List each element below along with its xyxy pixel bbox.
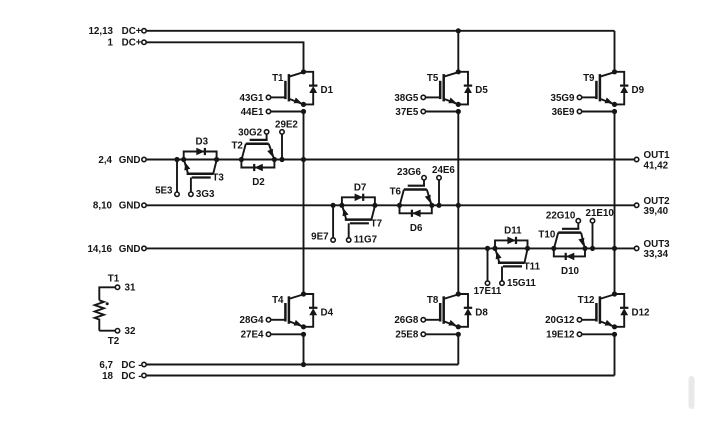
node T1 collector bbox=[301, 69, 306, 74]
junction T3 collector node bbox=[214, 157, 219, 162]
terminal 38G5 bbox=[421, 95, 440, 99]
svg-text:T2: T2 bbox=[231, 141, 243, 152]
node T12 collector bbox=[612, 291, 617, 296]
terminal 31 (thermistor T1) bbox=[108, 274, 136, 294]
svg-text:23G6: 23G6 bbox=[397, 167, 422, 178]
terminal 30G2 bbox=[264, 130, 268, 134]
terminal 37E5 bbox=[421, 109, 458, 113]
svg-text:26G8: 26G8 bbox=[394, 315, 419, 326]
svg-text:25E8: 25E8 bbox=[395, 330, 418, 341]
node T5 aux emitter tap bbox=[456, 109, 461, 114]
wire T5 emitter to T8 collector bbox=[457, 112, 459, 295]
node T1 emitter bbox=[301, 102, 306, 107]
svg-text:43G1: 43G1 bbox=[240, 93, 265, 104]
terminal 43G1 bbox=[266, 95, 285, 99]
wire DC- bus 6,7 bbox=[146, 364, 458, 366]
terminal OUT3 bbox=[634, 239, 670, 260]
node T8 collector bbox=[456, 291, 461, 296]
node T9 aux emitter tap bbox=[612, 109, 617, 114]
terminal DC+ pin 1 bbox=[108, 38, 147, 49]
wire DC+ bus 12,13 bbox=[146, 30, 614, 32]
junction T2 emitter node bbox=[272, 157, 277, 162]
terminal 21E10 bbox=[590, 219, 594, 249]
svg-text:17E11: 17E11 bbox=[474, 286, 502, 297]
svg-text:T4: T4 bbox=[272, 295, 284, 306]
terminal 27E4 bbox=[266, 332, 303, 336]
transistor T6 bbox=[400, 180, 432, 205]
svg-text:D2: D2 bbox=[252, 177, 265, 188]
svg-text:GND: GND bbox=[119, 244, 141, 255]
node T9 emitter bbox=[612, 102, 617, 107]
svg-text:D6: D6 bbox=[410, 223, 423, 234]
svg-text:27E4: 27E4 bbox=[241, 330, 264, 341]
terminal GND pins 8,10 bbox=[93, 201, 146, 212]
terminal GND pins 2,4 bbox=[98, 155, 146, 166]
svg-text:22G10: 22G10 bbox=[546, 210, 576, 221]
terminal DC- pins 6,7 bbox=[99, 360, 146, 371]
wire T1 emitter to T4 collector bbox=[303, 112, 305, 295]
svg-text:T12: T12 bbox=[578, 295, 595, 306]
junction 24E6 on bus bbox=[436, 203, 441, 208]
junction T3 emitter node bbox=[181, 157, 186, 162]
junction phase1 bus bbox=[301, 157, 306, 162]
transistor T12 bbox=[596, 294, 614, 326]
svg-text:3G3: 3G3 bbox=[196, 189, 215, 200]
diode D5 bbox=[458, 72, 472, 105]
svg-text:DC -: DC - bbox=[121, 371, 141, 382]
svg-text:D1: D1 bbox=[321, 85, 334, 96]
diode D9 bbox=[615, 72, 629, 105]
svg-text:21E10: 21E10 bbox=[586, 208, 615, 219]
terminal 25E8 bbox=[421, 332, 458, 336]
svg-text:19E12: 19E12 bbox=[546, 330, 575, 341]
node T4 emitter bbox=[301, 324, 306, 329]
junction T10 collector node bbox=[551, 246, 556, 251]
transistor T8 bbox=[440, 294, 458, 326]
terminal 35G9 bbox=[577, 95, 596, 99]
junction T7 emitter node bbox=[339, 203, 344, 208]
svg-text:36E9: 36E9 bbox=[552, 107, 575, 118]
terminal 24E6 bbox=[437, 176, 441, 206]
terminal DC+ pins 12,13 bbox=[88, 26, 146, 37]
svg-text:T10: T10 bbox=[538, 229, 555, 240]
svg-text:DC+: DC+ bbox=[122, 26, 142, 37]
svg-text:33,34: 33,34 bbox=[644, 249, 669, 260]
wire T12 emitter to DC- bus 18 bbox=[614, 334, 616, 375]
svg-text:28G4: 28G4 bbox=[240, 315, 265, 326]
transistor T3 bbox=[184, 160, 217, 192]
svg-text:T8: T8 bbox=[427, 295, 439, 306]
junction T10 emitter node bbox=[582, 246, 587, 251]
svg-text:5E3: 5E3 bbox=[155, 186, 173, 197]
wire DC+ bus to T5 collector bbox=[457, 31, 459, 72]
svg-text:9E7: 9E7 bbox=[311, 232, 329, 243]
wire GND bus 8,10 / phase2 bus bbox=[146, 204, 634, 206]
svg-text:12,13: 12,13 bbox=[88, 26, 113, 37]
transistor T9 bbox=[596, 72, 614, 104]
svg-text:D7: D7 bbox=[354, 182, 367, 193]
svg-text:20G12: 20G12 bbox=[545, 315, 575, 326]
svg-text:2,4: 2,4 bbox=[98, 155, 112, 166]
svg-text:T2: T2 bbox=[108, 336, 120, 347]
svg-text:DC -: DC - bbox=[121, 360, 141, 371]
svg-text:37E5: 37E5 bbox=[395, 107, 418, 118]
svg-text:18: 18 bbox=[102, 371, 113, 382]
svg-text:D4: D4 bbox=[321, 307, 334, 318]
node T1 aux emitter tap bbox=[301, 109, 306, 114]
svg-text:T11: T11 bbox=[524, 261, 541, 272]
svg-text:D10: D10 bbox=[561, 266, 580, 277]
svg-text:35G9: 35G9 bbox=[551, 93, 576, 104]
junction T6 emitter node bbox=[429, 203, 434, 208]
svg-text:6,7: 6,7 bbox=[99, 360, 113, 371]
svg-text:T3: T3 bbox=[212, 173, 224, 184]
svg-text:T1: T1 bbox=[272, 73, 284, 84]
junction T4 to DC- bus bbox=[301, 362, 306, 367]
junction 29E2 on bus bbox=[279, 157, 284, 162]
wire GND bus 2,4 / phase1 bus bbox=[146, 159, 634, 161]
wire DC+ pin1 to T1 collector bbox=[146, 42, 303, 72]
svg-text:T7: T7 bbox=[371, 218, 383, 229]
diode D11 bbox=[495, 237, 528, 249]
transistor T5 bbox=[440, 72, 458, 104]
diode D1 bbox=[304, 72, 318, 105]
terminal 17E11 bbox=[485, 248, 489, 285]
svg-text:39,40: 39,40 bbox=[644, 206, 669, 217]
svg-text:D12: D12 bbox=[632, 307, 651, 318]
junction phase3 bus bbox=[612, 246, 617, 251]
node T4 aux emitter tap bbox=[301, 332, 306, 337]
svg-text:41,42: 41,42 bbox=[644, 160, 669, 171]
node T12 emitter bbox=[612, 324, 617, 329]
transistor T2 bbox=[242, 134, 274, 159]
terminal 23G6 bbox=[422, 176, 426, 180]
terminal 11G7 bbox=[347, 238, 351, 242]
svg-text:D8: D8 bbox=[475, 307, 488, 318]
junction 17E11 on bus bbox=[485, 246, 490, 251]
junction T2 collector node bbox=[239, 157, 244, 162]
node T5 emitter bbox=[456, 102, 461, 107]
junction 5E3 on bus bbox=[174, 157, 179, 162]
terminal 26G8 bbox=[421, 318, 440, 322]
terminal 28G4 bbox=[266, 318, 285, 322]
svg-text:32: 32 bbox=[125, 326, 136, 337]
svg-text:D3: D3 bbox=[196, 137, 209, 148]
watermark bbox=[689, 376, 695, 409]
diode D7 bbox=[342, 194, 375, 206]
svg-text:D5: D5 bbox=[475, 85, 488, 96]
diode D2 bbox=[241, 160, 274, 172]
thermistor R(NTC) bbox=[95, 287, 116, 330]
node T4 collector bbox=[301, 291, 306, 296]
svg-text:T9: T9 bbox=[583, 73, 595, 84]
svg-text:T1: T1 bbox=[108, 274, 120, 285]
wire GND bus 14,16 / phase3 bus bbox=[146, 247, 634, 249]
node T12 aux emitter tap bbox=[612, 332, 617, 337]
node T8 aux emitter tap bbox=[456, 332, 461, 337]
terminal 36E9 bbox=[577, 109, 614, 113]
terminal 19E12 bbox=[577, 332, 614, 336]
svg-text:GND: GND bbox=[119, 201, 141, 212]
wire T4 emitter to DC- bus bbox=[303, 334, 305, 364]
terminal 44E1 bbox=[266, 109, 303, 113]
svg-text:DC+: DC+ bbox=[122, 38, 142, 49]
svg-text:1: 1 bbox=[108, 38, 114, 49]
terminal 20G12 bbox=[577, 318, 596, 322]
svg-text:D9: D9 bbox=[632, 85, 645, 96]
node T5 collector bbox=[456, 69, 461, 74]
svg-text:38G5: 38G5 bbox=[394, 93, 419, 104]
terminal 32 (thermistor T2) bbox=[108, 326, 136, 347]
terminal 29E2 bbox=[280, 130, 284, 160]
junction T6 collector node bbox=[397, 203, 402, 208]
terminal 5E3 bbox=[175, 160, 179, 197]
diode D10 bbox=[554, 248, 585, 260]
transistor T1 bbox=[285, 72, 303, 104]
svg-text:8,10: 8,10 bbox=[93, 201, 113, 212]
svg-text:29E2: 29E2 bbox=[275, 119, 298, 130]
svg-text:14,16: 14,16 bbox=[87, 244, 112, 255]
terminal GND pins 14,16 bbox=[87, 244, 146, 255]
junction 21E10 on bus bbox=[590, 246, 595, 251]
junction T7 collector node bbox=[372, 203, 377, 208]
junction phase2 bus bbox=[456, 203, 461, 208]
junction T11 emitter node bbox=[492, 246, 497, 251]
svg-text:T6: T6 bbox=[390, 186, 402, 197]
svg-text:11G7: 11G7 bbox=[354, 235, 378, 246]
diode D4 bbox=[304, 294, 318, 327]
terminal 22G10 bbox=[576, 219, 580, 223]
transistor T11 bbox=[495, 249, 527, 281]
junction DC+ bus to T5 bbox=[456, 28, 461, 33]
svg-text:31: 31 bbox=[125, 283, 136, 294]
svg-text:24E6: 24E6 bbox=[432, 165, 455, 176]
svg-text:30G2: 30G2 bbox=[238, 127, 263, 138]
wire T8 emitter to DC- bus bbox=[457, 334, 459, 364]
junction 9E7 on bus bbox=[331, 203, 336, 208]
transistor T4 bbox=[285, 294, 303, 326]
wire DC- bus 18 bbox=[146, 375, 614, 377]
terminal DC- pin 18 bbox=[102, 371, 146, 382]
transistor T10 bbox=[554, 223, 585, 248]
terminal OUT1 bbox=[634, 150, 670, 171]
node T8 emitter bbox=[456, 324, 461, 329]
diode D6 bbox=[400, 205, 432, 217]
terminal 15G11 bbox=[500, 281, 504, 285]
terminal 3G3 bbox=[189, 192, 193, 196]
diode D3 bbox=[184, 148, 217, 160]
terminal OUT2 bbox=[634, 196, 670, 217]
transistor T7 bbox=[342, 206, 375, 238]
wire DC+ bus to T9 collector bbox=[614, 31, 616, 72]
junction T11 collector node bbox=[525, 246, 530, 251]
terminal 9E7 bbox=[331, 205, 335, 242]
svg-text:GND: GND bbox=[119, 155, 141, 166]
diode D8 bbox=[458, 294, 472, 327]
svg-text:T5: T5 bbox=[427, 73, 439, 84]
wire T9 emitter to T12 collector bbox=[614, 112, 616, 295]
svg-text:D11: D11 bbox=[504, 225, 522, 236]
svg-text:15G11: 15G11 bbox=[507, 278, 536, 289]
node T9 collector bbox=[612, 69, 617, 74]
diode D12 bbox=[615, 294, 629, 327]
svg-text:44E1: 44E1 bbox=[241, 107, 264, 118]
